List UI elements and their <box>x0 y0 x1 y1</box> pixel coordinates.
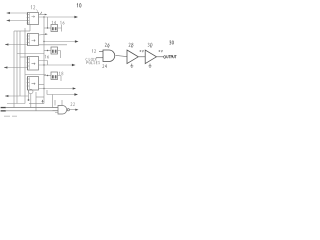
label 14 above S1 <box>52 21 56 24</box>
wire x47 <box>46 90 48 95</box>
FF3 left edge accent <box>27 57 29 71</box>
wire horizontal y31 <box>14 30 30 32</box>
label 30 top right corner <box>169 41 173 45</box>
stub arrow FF2 <box>45 33 48 35</box>
arrowhead out1 <box>74 16 78 18</box>
wire x28.5 <box>28 90 30 100</box>
FF2 inner edge line <box>29 34 31 45</box>
FF2 left edge accent <box>27 34 29 46</box>
arrowhead input bottom <box>5 95 8 97</box>
label 12 at U2 input 1 <box>92 49 96 52</box>
wire G1 output <box>69 109 77 111</box>
FF1 left edge accent <box>27 13 29 25</box>
junction dot (44,65) <box>43 64 44 65</box>
wire circle stem <box>30 94 32 108</box>
wire U4 output <box>157 56 164 58</box>
wire into S1 left <box>44 27 51 29</box>
FF3 pin ticks <box>27 59 30 66</box>
flip-flop FF1 <box>28 13 39 25</box>
delay box S2 interior marks <box>52 50 54 53</box>
junction dot (44,88.5) <box>43 88 44 89</box>
delay box S3 interior marks <box>52 75 54 78</box>
wire G1 inputs <box>53 108 59 113</box>
arrowhead input 1 <box>7 12 10 14</box>
leader arrow U4 label <box>149 46 152 48</box>
wire U2 input 1 <box>99 51 103 53</box>
wire FF1 bottom to bus <box>29 25 31 32</box>
wire S3 out <box>58 76 62 82</box>
FF4 inner edge line <box>29 77 31 89</box>
wire S2 out <box>58 51 61 59</box>
vertical x44 long <box>43 17 45 97</box>
wire U2 output <box>116 56 128 57</box>
leader arrow U3 label <box>130 46 133 48</box>
arrowhead out3 <box>72 64 76 66</box>
wire S1 out <box>58 25 62 32</box>
wire input line 2 to flip-flop FF1 <box>7 20 28 22</box>
arrowhead out2 <box>75 40 79 42</box>
right-hand detail circuit <box>96 46 164 67</box>
bus y107.5 <box>6 107 58 109</box>
bus y110.5 <box>6 110 58 112</box>
wire into S2 left <box>44 50 51 52</box>
label OUTPUT <box>164 55 177 58</box>
label 22 above gate G1 <box>71 102 75 105</box>
flip-flop FF4 <box>28 77 39 91</box>
vertical bus x17 <box>16 31 18 104</box>
label 18 right of S3 <box>59 72 63 75</box>
buffer U3 <box>127 50 138 64</box>
wire y57 into FF3 <box>20 56 28 58</box>
transistor circle Q1 <box>29 89 33 93</box>
output arrow line stage3 <box>39 64 74 66</box>
junction dot (47.5,28) <box>47 27 48 28</box>
wire x36 <box>35 92 37 111</box>
delay box S2 <box>51 47 58 54</box>
and gate U2 <box>103 50 115 62</box>
delay box S1 <box>51 25 58 32</box>
bus terminal dash 1 <box>1 107 6 108</box>
FF1 clock wedge <box>32 16 35 18</box>
bubble G1 <box>67 109 69 111</box>
FF4 pin ticks <box>27 79 30 86</box>
wire FF1 Q stub <box>39 14 46 16</box>
output arrow line stage2 <box>44 41 76 43</box>
wire y53.5 <box>17 53 44 55</box>
wire y74.5 into S4 <box>25 74 46 76</box>
vertical bus x14 <box>13 31 15 108</box>
label 30 above buffer U4 <box>148 43 152 47</box>
arrowhead G1 out <box>75 109 78 111</box>
junction dot (44,17) <box>43 16 44 17</box>
vertical bus x25 <box>24 28 26 104</box>
label 12 above FF1 <box>31 5 38 12</box>
output arrow line stage4 <box>39 88 74 90</box>
buffer U4 <box>145 50 156 64</box>
output arrow line stage1 <box>39 16 76 18</box>
flip-flop FF3 <box>28 57 39 71</box>
wire y103.5 left <box>7 103 25 105</box>
caption smudge bottom left <box>4 115 17 117</box>
output arrow line bottom <box>47 94 76 96</box>
stub arrow FF1 <box>45 14 48 16</box>
wire y97 <box>36 96 44 98</box>
FF1 pin ticks <box>27 15 30 24</box>
arrowhead input FF2 <box>5 43 8 45</box>
label 10 <box>77 4 81 8</box>
wire x52.5 down <box>52 95 54 108</box>
label CLOCK <box>86 58 97 61</box>
ground mark U4 <box>149 64 152 68</box>
junction dot (47.5,75.5) <box>47 75 48 76</box>
FF4 left edge accent <box>27 77 29 91</box>
up arrow at x42.5 <box>42 100 44 102</box>
wire input line to flip-flop FF2 <box>5 44 28 46</box>
wire x47.5 down to S1 <box>47 17 49 28</box>
wire input line 1 to flip-flop FF1 <box>7 12 28 14</box>
ground mark U3 <box>130 64 133 68</box>
arrowhead out4 <box>73 87 76 89</box>
delay box S1 interior marks <box>52 27 54 30</box>
label +V at U3 apex <box>139 50 143 52</box>
label 16 dash right of FF1 <box>41 12 42 14</box>
flip-flop FF2 <box>28 34 39 46</box>
label 26 above and gate U2 <box>105 43 109 47</box>
label 16 above S3 <box>45 55 49 58</box>
delay box S3 <box>51 72 58 80</box>
FF3 inner edge line <box>29 57 31 69</box>
arrowhead input FF3 <box>4 66 7 68</box>
FF2 clock wedge <box>32 40 36 42</box>
arrowhead input 2 <box>7 19 10 21</box>
wire U3 to U4 <box>138 56 145 58</box>
wire y44.8 <box>39 44 68 46</box>
vertical bus x20 <box>19 31 21 96</box>
wire into S3 left <box>44 75 51 77</box>
label +V at U4 apex <box>158 50 162 52</box>
wire x44 down <box>43 97 45 104</box>
wire input line to bottom gate row <box>5 95 29 97</box>
leader arrow U2 label <box>107 46 110 48</box>
label 28 above buffer U3 <box>129 43 133 47</box>
junction dot (44,41.5) <box>43 41 44 42</box>
junction dot (47.5,50.5) <box>47 50 48 51</box>
bus terminal dash 2 <box>1 110 6 111</box>
FF4 clock wedge <box>32 83 36 85</box>
FF1 inner edge line <box>29 13 31 24</box>
wire up arrow stem <box>42 101 44 104</box>
arrowhead out5 <box>74 93 78 95</box>
wire FF3 Q stub <box>39 61 48 66</box>
wire G1 top feed <box>55 100 62 106</box>
wire U2 input 2 <box>96 57 103 59</box>
wire input line to flip-flop FF3 <box>4 67 28 69</box>
label PULSES <box>87 61 100 64</box>
junction blob x28.5 <box>28 99 30 101</box>
wire y103.5 <box>29 103 44 105</box>
wire FF4 stub <box>39 84 45 86</box>
label 24 below U2 <box>103 64 107 68</box>
FF3 clock wedge <box>32 63 36 65</box>
FF2 pin ticks <box>27 36 30 43</box>
gate G1 (bottom NAND) <box>58 106 69 115</box>
wire FF2 Q stub <box>39 33 46 36</box>
label 16 right of S1 <box>60 21 64 24</box>
